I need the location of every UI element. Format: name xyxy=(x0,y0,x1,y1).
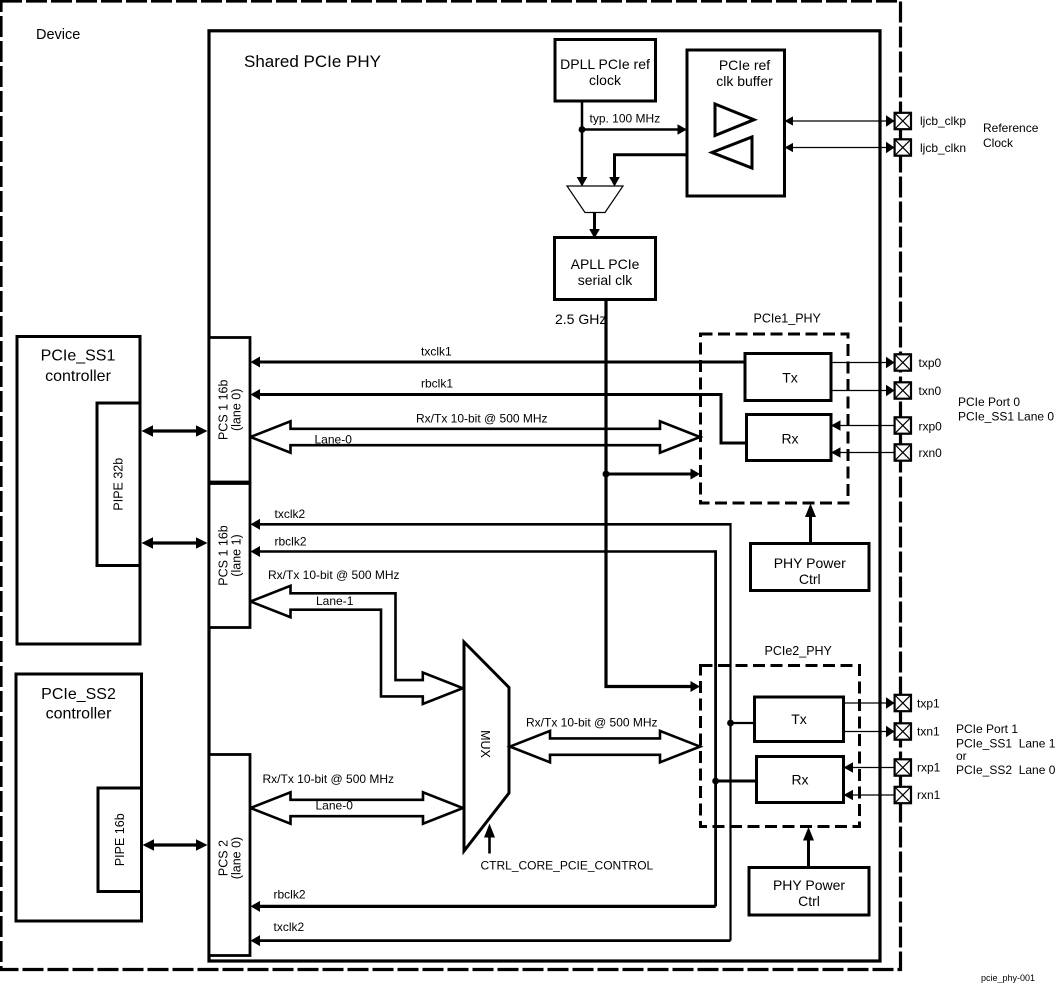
wire txclk2 top xyxy=(251,519,731,530)
Shared PCIe PHY box xyxy=(209,31,880,961)
wire DPLL down to clock mux xyxy=(577,101,588,187)
DPLL PCIe ref clock box xyxy=(555,40,656,102)
wire rxn1 xyxy=(844,790,895,801)
svg-text:txp0: txp0 xyxy=(919,356,942,370)
pad ljcb_clkp xyxy=(895,113,911,129)
PIPE 16b box xyxy=(98,788,142,892)
wire rbclk1 xyxy=(251,389,747,443)
svg-text:rxp0: rxp0 xyxy=(919,420,943,434)
svg-text:Tx: Tx xyxy=(782,369,798,385)
PCS 2 (lane 0) box xyxy=(209,755,250,956)
wire buffer to clock mux xyxy=(609,155,687,187)
wire txclk2 bottom xyxy=(251,935,731,946)
svg-text:PHY Power: PHY Power xyxy=(774,555,846,571)
svg-text:PCIe Port 1: PCIe Port 1 xyxy=(956,722,1018,736)
svg-text:PCIe1_PHY: PCIe1_PHY xyxy=(754,312,822,326)
stub txclk2 to Tx2 xyxy=(731,722,755,724)
pad rxn0 xyxy=(895,444,911,460)
wire txp1 xyxy=(844,697,895,709)
svg-text:Tx: Tx xyxy=(791,711,807,727)
APLL PCIe serial clk box xyxy=(555,238,656,300)
stub rbclk2 to Rx2 xyxy=(716,780,757,783)
wire rxp0 xyxy=(831,420,895,431)
wide arrow Lane-0 (PCS1 lane0 to PCIe1_PHY) xyxy=(251,421,701,452)
svg-text:PCIe_SS1 Lane 1: PCIe_SS1 Lane 1 xyxy=(956,737,1056,751)
svg-text:PCIe Port 0: PCIe Port 0 xyxy=(958,395,1020,409)
svg-text:rxn1: rxn1 xyxy=(917,788,941,802)
PIPE32b-PCS1lane1 double arrow xyxy=(142,537,208,548)
wire typ. 100 MHz to buffer xyxy=(582,124,687,134)
serial clock branch to PCIe1_PHY xyxy=(606,473,692,476)
CTRL_CORE_PCIE_CONTROL arrow xyxy=(484,824,495,854)
svg-text:Ctrl: Ctrl xyxy=(798,893,820,909)
wire rxn0 xyxy=(831,447,895,458)
svg-text:APLL PCIe: APLL PCIe xyxy=(571,256,640,272)
svg-text:Lane-0: Lane-0 xyxy=(315,433,353,447)
PIPE 32b box xyxy=(97,403,140,566)
vertical net rbclk2 xyxy=(714,550,717,906)
svg-text:PCIe_SS1: PCIe_SS1 xyxy=(41,348,116,365)
PCS 1 16b (lane 1) box xyxy=(209,484,250,628)
junction dot serial clock xyxy=(603,471,610,478)
svg-text:PCIe ref: PCIe ref xyxy=(719,57,770,73)
wire rbclk2 bottom xyxy=(251,901,716,912)
svg-text:txclk2: txclk2 xyxy=(275,507,306,521)
vertical net txclk2 xyxy=(729,523,731,941)
buffer triangle right xyxy=(715,104,754,136)
svg-text:Lane-0: Lane-0 xyxy=(316,799,354,813)
arrowhead branch1 xyxy=(691,469,701,480)
wire rbclk2 top xyxy=(251,546,716,557)
svg-text:Rx/Tx 10-bit @ 500 MHz: Rx/Tx 10-bit @ 500 MHz xyxy=(416,412,548,426)
wire txp0 xyxy=(831,357,895,369)
svg-text:PCS 2: PCS 2 xyxy=(217,840,231,876)
pad ljcb_clkn xyxy=(895,139,911,155)
pad txp1 xyxy=(895,695,911,711)
svg-text:DPLL PCIe ref: DPLL PCIe ref xyxy=(560,56,650,72)
svg-text:ljcb_clkn: ljcb_clkn xyxy=(920,141,966,155)
Rx box PCIe1 xyxy=(747,415,832,461)
PCS 1 16b (lane 0) box xyxy=(209,338,250,483)
svg-text:PCS 1 16b: PCS 1 16b xyxy=(217,380,231,441)
Rx box PCIe2 xyxy=(757,757,844,803)
buffer triangle left xyxy=(712,137,752,168)
pad rxn1 xyxy=(895,787,911,803)
svg-text:rbclk2: rbclk2 xyxy=(274,888,306,902)
svg-text:rbclk2: rbclk2 xyxy=(275,535,307,549)
svg-text:txn0: txn0 xyxy=(919,384,942,398)
reference clock line n (buffer to pad) xyxy=(785,142,895,154)
junction dot txclk2 xyxy=(727,720,734,727)
pad txn0 xyxy=(895,382,911,398)
svg-text:(lane 0): (lane 0) xyxy=(230,389,244,431)
PCIe2_PHY dashed box xyxy=(701,666,860,827)
svg-text:Reference: Reference xyxy=(983,121,1039,135)
MUX trapezoid xyxy=(464,642,509,851)
Tx box PCIe1 xyxy=(745,354,831,401)
svg-text:Rx/Tx 10-bit @ 500 MHz: Rx/Tx 10-bit @ 500 MHz xyxy=(263,772,395,786)
reference clock line p (buffer to pad) xyxy=(785,115,895,127)
PIPE16b-PCS2 double arrow xyxy=(143,839,208,850)
wire txn1 xyxy=(844,726,895,738)
svg-text:(lane 1): (lane 1) xyxy=(230,534,244,576)
clock mux trapezoid xyxy=(567,186,623,213)
svg-text:txclk1: txclk1 xyxy=(421,345,452,359)
svg-text:clock: clock xyxy=(589,72,622,88)
wire txclk1 xyxy=(251,357,747,368)
wide arrow Lane-1 (PCS1 lane1 to MUX, bent) xyxy=(251,586,463,704)
PIPE32b-PCS1lane0 double arrow xyxy=(142,425,208,436)
svg-text:rxn0: rxn0 xyxy=(919,446,943,460)
wire clock mux to APLL xyxy=(589,213,600,239)
svg-text:pcie_phy-001: pcie_phy-001 xyxy=(981,973,1035,983)
svg-text:serial clk: serial clk xyxy=(578,272,633,288)
svg-text:txp1: txp1 xyxy=(917,697,940,711)
svg-text:Lane-1: Lane-1 xyxy=(316,594,354,608)
svg-text:Ctrl: Ctrl xyxy=(799,571,821,587)
arrow PHY Power Ctrl 1 to PCIe1_PHY xyxy=(805,504,816,544)
svg-text:PCIe_SS1 Lane 0: PCIe_SS1 Lane 0 xyxy=(958,410,1054,424)
svg-text:PCIe_SS2 Lane 0: PCIe_SS2 Lane 0 xyxy=(956,763,1056,777)
svg-text:or: or xyxy=(956,749,967,763)
svg-text:Shared PCIe PHY: Shared PCIe PHY xyxy=(244,52,381,71)
wide arrow MUX to PCIe2_PHY xyxy=(510,731,700,762)
PCIe_SS2 controller box xyxy=(16,674,142,921)
svg-text:clk buffer: clk buffer xyxy=(716,73,773,89)
pad rxp1 xyxy=(895,759,911,775)
svg-text:Rx: Rx xyxy=(781,430,798,446)
PCIe1_PHY dashed box xyxy=(701,334,849,503)
svg-text:Rx/Tx 10-bit @ 500 MHz: Rx/Tx 10-bit @ 500 MHz xyxy=(526,716,658,730)
PCIe ref clk buffer box xyxy=(687,50,785,196)
svg-text:txclk2: txclk2 xyxy=(274,920,305,934)
pad rxp0 xyxy=(895,417,911,433)
junction dot rbclk2 xyxy=(712,778,719,785)
svg-text:rbclk1: rbclk1 xyxy=(421,377,453,391)
PHY Power Ctrl box 2 xyxy=(749,868,869,916)
svg-text:CTRL_CORE_PCIE_CONTROL: CTRL_CORE_PCIE_CONTROL xyxy=(481,859,654,873)
junction dot typ100 xyxy=(579,126,586,133)
PHY Power Ctrl box 1 xyxy=(751,544,870,591)
Tx box PCIe2 xyxy=(755,697,844,742)
svg-text:Device: Device xyxy=(36,27,80,43)
svg-text:PCS 1 16b: PCS 1 16b xyxy=(217,525,231,586)
svg-text:typ. 100 MHz: typ. 100 MHz xyxy=(590,112,661,126)
svg-text:(lane 0): (lane 0) xyxy=(230,837,244,879)
svg-text:2.5 GHz: 2.5 GHz xyxy=(555,311,606,327)
svg-text:rxp1: rxp1 xyxy=(917,761,941,775)
svg-text:PCIe2_PHY: PCIe2_PHY xyxy=(765,644,833,658)
svg-text:Clock: Clock xyxy=(983,136,1014,150)
svg-text:PIPE 16b: PIPE 16b xyxy=(113,813,127,866)
svg-text:PCIe_SS2: PCIe_SS2 xyxy=(41,686,116,703)
wire txn0 xyxy=(831,385,895,397)
svg-text:Rx/Tx 10-bit @ 500 MHz: Rx/Tx 10-bit @ 500 MHz xyxy=(268,568,400,582)
svg-text:PIPE 32b: PIPE 32b xyxy=(112,458,126,511)
PCIe_SS1 controller box xyxy=(17,337,140,645)
svg-text:PHY Power: PHY Power xyxy=(773,877,845,893)
svg-text:ljcb_clkp: ljcb_clkp xyxy=(920,114,966,128)
2.5 GHz serial clock trunk xyxy=(606,299,692,687)
pad txn1 xyxy=(895,723,911,739)
wide arrow bottom Lane-0 (PCS2 to MUX) xyxy=(251,792,464,823)
svg-text:MUX: MUX xyxy=(478,730,492,758)
pad txp0 xyxy=(895,354,911,370)
svg-text:controller: controller xyxy=(46,706,112,723)
svg-text:controller: controller xyxy=(45,368,111,385)
svg-text:txn1: txn1 xyxy=(917,725,940,739)
arrow PHY Power Ctrl 2 to PCIe2_PHY xyxy=(803,827,814,868)
arrowhead branch2 xyxy=(691,681,701,692)
wire rxp1 xyxy=(844,762,895,773)
svg-text:Rx: Rx xyxy=(791,771,808,787)
